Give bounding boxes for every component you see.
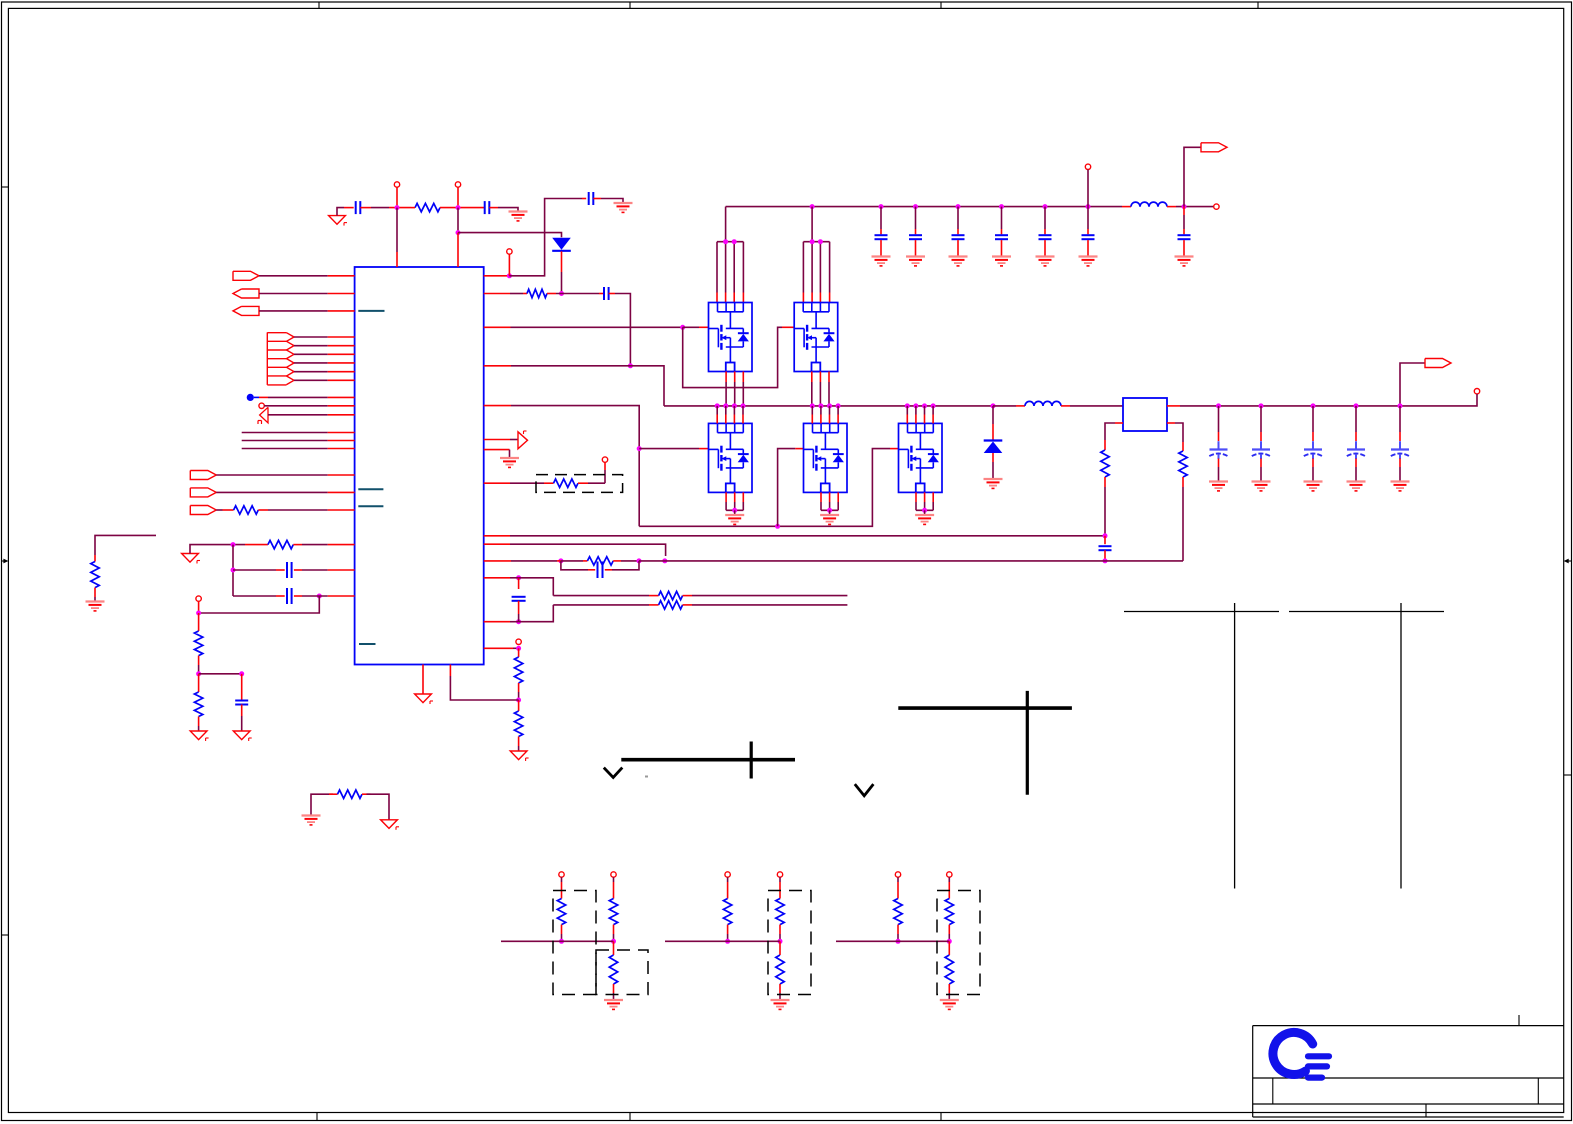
resistor R1 (415, 203, 440, 211)
wire (733, 406, 735, 424)
ground E-out3 (1304, 482, 1323, 491)
ground E2 (614, 203, 633, 212)
node (896, 939, 901, 944)
node J4 (507, 273, 512, 278)
wire (484, 577, 510, 579)
wire (484, 365, 511, 367)
wire (294, 595, 302, 597)
ground E6 (86, 602, 105, 611)
wire (779, 993, 781, 1000)
wire (1175, 423, 1183, 442)
node (913, 403, 918, 408)
wire (779, 941, 781, 955)
resistor R13 (514, 657, 522, 683)
wire (880, 207, 882, 229)
wire (692, 604, 847, 606)
wire (1167, 405, 1180, 407)
ground flag F4 (182, 554, 200, 564)
wire (621, 560, 639, 562)
wire (457, 187, 459, 207)
net stub blue dot (247, 394, 259, 401)
frame zone ticks top (319, 2, 1258, 8)
wire (561, 560, 583, 562)
wire (198, 717, 200, 727)
wire (915, 406, 917, 424)
wire (367, 794, 390, 820)
wire (1087, 207, 1089, 229)
wire (519, 578, 554, 596)
wire (811, 406, 813, 424)
wire (518, 614, 520, 622)
wire (396, 252, 398, 267)
wire (897, 877, 899, 882)
capacitor C7 (952, 235, 965, 239)
node (715, 403, 720, 408)
wire (820, 406, 822, 424)
wire (457, 233, 459, 267)
test point TP10 (196, 596, 201, 601)
wire (328, 293, 355, 295)
wire (199, 596, 320, 613)
wire (605, 569, 612, 571)
resistor R5 (659, 591, 683, 599)
wire (484, 543, 510, 545)
wire (518, 737, 520, 747)
ground flag F2 (510, 751, 528, 761)
resistor R18 (609, 955, 617, 984)
power port PF1 (518, 431, 528, 449)
resistor R22 (894, 899, 902, 925)
wire (957, 207, 959, 229)
wire (1260, 406, 1262, 432)
wire (422, 665, 424, 694)
wire (683, 604, 692, 606)
node (723, 239, 728, 244)
node J23 (231, 568, 236, 573)
node (1398, 403, 1403, 408)
pin mark dash 2 (358, 488, 383, 490)
node (741, 403, 746, 408)
wire (699, 326, 709, 328)
wire (613, 984, 615, 993)
wire (518, 746, 520, 751)
wire (932, 406, 934, 424)
node (922, 403, 927, 408)
wire (561, 925, 563, 934)
wire (1182, 487, 1184, 561)
wire (1399, 459, 1401, 468)
capacitor C8 (995, 235, 1008, 239)
dashed box DNP1b (596, 950, 648, 995)
node (836, 403, 841, 408)
node J13 (1103, 533, 1108, 538)
wire (609, 293, 615, 295)
resistor R2 (527, 289, 547, 297)
wire (588, 482, 605, 484)
resistor R12 (194, 692, 202, 717)
wire (508, 254, 510, 276)
wire (511, 560, 557, 562)
wire (1218, 467, 1220, 481)
capacitor C13 (598, 562, 603, 579)
wire (924, 510, 926, 514)
mosfet Q2 (804, 423, 848, 492)
wire (216, 474, 327, 476)
node (810, 403, 815, 408)
wire FB long (510, 535, 1105, 537)
frame center arrow left (2, 559, 9, 564)
resistor R14 (514, 711, 522, 737)
wire (812, 372, 829, 406)
wire (294, 362, 328, 364)
ground E-src (820, 515, 839, 524)
wire (328, 362, 355, 364)
wire (518, 601, 520, 614)
wire (613, 877, 615, 882)
inductor L1 (1131, 202, 1167, 207)
node (559, 939, 564, 944)
wire (1061, 405, 1070, 407)
node (725, 939, 730, 944)
wire (484, 535, 510, 537)
capacitor C10 (1082, 235, 1095, 239)
wire (241, 716, 243, 731)
resistor R4 (268, 540, 293, 548)
capacitor C12 (1099, 546, 1112, 550)
wire (242, 440, 328, 442)
wire fan A (717, 242, 743, 303)
capacitor C2 (485, 201, 490, 214)
node J7 (680, 325, 685, 330)
test point TP3 (507, 249, 512, 254)
wire (245, 544, 268, 546)
capacitor CP5 (1391, 441, 1409, 459)
resistor R24 (945, 955, 953, 984)
node J2 (456, 205, 461, 210)
wire (1218, 432, 1220, 441)
wire (242, 448, 328, 450)
wire (727, 877, 729, 882)
ground E-grp3 (940, 1000, 959, 1009)
wire (519, 605, 554, 622)
port tag PL4 (190, 471, 216, 480)
pin mark dash 1 (358, 310, 384, 312)
wire (553, 604, 649, 606)
frame zone ticks bottom (317, 1113, 941, 1121)
inductor L2 (1025, 401, 1061, 406)
wire (95, 535, 156, 555)
table line T1 vertical (750, 742, 753, 779)
wire (328, 474, 355, 476)
wire (489, 207, 498, 209)
wire (510, 482, 544, 484)
wire (880, 240, 882, 256)
capacitor CP2 (1252, 441, 1270, 459)
wire (232, 545, 234, 596)
wire (258, 509, 268, 511)
capacitor C6 (909, 235, 922, 239)
wire (992, 424, 994, 440)
wire (1183, 229, 1185, 234)
wire (1260, 459, 1262, 468)
wire (518, 578, 520, 589)
pin mark dash 4 (359, 643, 376, 645)
wire (198, 674, 200, 692)
title block (1253, 1015, 1564, 1117)
wire (906, 406, 908, 424)
wire (613, 560, 621, 562)
wire (329, 793, 338, 795)
wire (639, 560, 662, 562)
wire phase bus (664, 405, 993, 407)
wire (94, 597, 96, 601)
table line T2 horizontal (898, 706, 1072, 710)
wire (293, 544, 302, 546)
wire (1087, 170, 1089, 207)
table line T3 vertical (1234, 603, 1236, 889)
resistor R16 (557, 899, 565, 925)
wire (836, 940, 949, 942)
wire (449, 665, 451, 677)
wire (992, 406, 994, 424)
ground E-grp2 (771, 1000, 790, 1009)
ground E-out2 (1252, 482, 1271, 491)
resistor R16 (1179, 451, 1187, 477)
stray dot (645, 776, 648, 778)
wire (779, 877, 781, 882)
table line T1 horizontal (621, 758, 795, 762)
node (732, 403, 737, 408)
wire (294, 336, 328, 338)
wire (795, 448, 803, 450)
wire (510, 544, 666, 556)
chevron mark 1 (604, 768, 623, 778)
wire fan B (803, 242, 829, 303)
wire (1183, 207, 1185, 215)
capacitor CP4 (1347, 441, 1365, 459)
wire (198, 656, 200, 665)
node J-bank5 (1043, 204, 1048, 209)
wire (328, 440, 355, 442)
wire (198, 665, 200, 674)
port tag PL5 (190, 488, 216, 497)
wire (484, 405, 511, 407)
dashed box NTC (536, 475, 623, 493)
resistor R11 (194, 631, 202, 656)
port tag PL1 (233, 271, 259, 280)
wire (734, 510, 736, 514)
wire (396, 208, 398, 252)
test point TP6 (1474, 389, 1479, 394)
wire (510, 577, 519, 579)
wire (1087, 229, 1089, 234)
wire (1182, 477, 1184, 487)
wire (604, 470, 606, 483)
ground flag F7 (381, 820, 399, 830)
node J11 (810, 204, 815, 209)
node (931, 403, 936, 408)
wire (915, 240, 917, 256)
node (723, 403, 728, 408)
wire (725, 207, 727, 242)
node J25 (196, 611, 201, 616)
capacitor C16 (287, 588, 292, 604)
test point TP4 (1085, 164, 1090, 169)
wire (268, 414, 328, 416)
wire (523, 293, 527, 295)
wire (578, 482, 588, 484)
diode D1 (552, 238, 571, 251)
port tag P2 (1425, 359, 1451, 368)
wire (484, 647, 513, 649)
node J17 (662, 558, 667, 563)
wire (276, 569, 285, 571)
wire (726, 372, 743, 406)
wire (948, 877, 950, 882)
test point TP5 (1214, 204, 1219, 209)
wire (294, 379, 328, 381)
wire (450, 676, 518, 700)
wire (484, 482, 510, 484)
wire (948, 882, 950, 899)
wire (518, 683, 520, 692)
wire (328, 396, 355, 398)
resistor R7 (587, 557, 613, 565)
wire (328, 371, 355, 373)
resistor R17 (609, 899, 617, 925)
node J14 (1103, 558, 1108, 563)
wire (1087, 240, 1089, 256)
wire (302, 544, 328, 546)
wire (302, 569, 328, 571)
wire (924, 406, 926, 424)
node (1311, 403, 1316, 408)
wire (639, 448, 699, 450)
wire (328, 379, 355, 381)
wire (328, 544, 355, 546)
wire (1104, 487, 1106, 536)
node (1354, 403, 1359, 408)
wire (782, 326, 794, 328)
wire (511, 326, 683, 328)
wire (328, 336, 355, 338)
wire (915, 207, 917, 229)
capacitor C3 (589, 192, 594, 205)
wire (957, 229, 959, 234)
node J6 (628, 363, 633, 368)
wire (613, 934, 615, 941)
test point TP8 (516, 639, 521, 644)
wire (511, 406, 639, 527)
wire (302, 595, 328, 597)
wire (328, 414, 355, 416)
ground flag F1 (329, 216, 347, 226)
wire (484, 439, 510, 441)
wire (328, 432, 355, 434)
wire (457, 208, 459, 233)
wire (556, 293, 599, 295)
resistor R23 (945, 899, 953, 925)
ground E-bank6 (1079, 257, 1098, 266)
port tag PL3 (233, 306, 259, 315)
ground E-src (725, 515, 744, 524)
wire (1104, 477, 1106, 487)
wire (328, 491, 355, 493)
ground E7 (302, 816, 321, 825)
wire (259, 396, 268, 398)
node J5 (559, 291, 564, 296)
wire (328, 448, 355, 450)
wire (371, 207, 389, 209)
wire (1070, 405, 1123, 407)
wire (561, 561, 588, 570)
wire (993, 405, 1016, 407)
node J-bank4 (999, 204, 1004, 209)
mosfet QB (794, 303, 838, 372)
wire (897, 925, 899, 934)
node J-bank1 (879, 204, 884, 209)
ground E-out5 (1391, 482, 1410, 491)
wire (199, 673, 242, 675)
wire (1105, 423, 1115, 440)
ground E-out4 (1347, 482, 1366, 491)
port tag P1 (1201, 143, 1227, 152)
wire (1312, 432, 1314, 441)
wire (484, 293, 510, 295)
wire (360, 207, 371, 209)
node J19 (516, 619, 521, 624)
wire (198, 726, 200, 731)
wire (779, 934, 781, 941)
node J8 (637, 446, 642, 451)
wire (462, 207, 485, 209)
wire (198, 601, 200, 613)
wire (1312, 459, 1314, 468)
test point TP11 (725, 872, 730, 877)
frame zone tick right (1564, 774, 1572, 776)
wire (588, 569, 595, 571)
wire (649, 595, 659, 597)
node (732, 508, 737, 513)
wire (561, 877, 563, 882)
wire (1044, 240, 1046, 256)
node (827, 403, 832, 408)
diode D2 (984, 441, 1003, 454)
wire (557, 560, 561, 562)
mosfet Q3 (899, 423, 943, 492)
wire (1044, 229, 1046, 234)
node (818, 239, 823, 244)
wire (328, 595, 355, 597)
ground E5 (500, 458, 519, 467)
wire (311, 794, 333, 815)
wire (699, 448, 709, 450)
resistor R15 (1101, 450, 1109, 477)
test point TP7 (602, 457, 607, 462)
wire (1167, 422, 1175, 424)
wire (727, 934, 729, 941)
ground E3 (1175, 257, 1194, 266)
wire (1399, 406, 1401, 432)
node (778, 939, 783, 944)
wire (683, 326, 699, 328)
node (611, 939, 616, 944)
wire (276, 595, 285, 597)
node (1216, 403, 1221, 408)
wire (328, 345, 355, 347)
ground E-bank2 (906, 257, 925, 266)
capacitor C9 (1039, 235, 1052, 239)
